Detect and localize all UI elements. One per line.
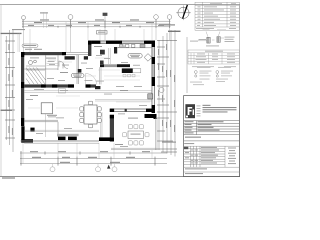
hall smudges bbox=[47, 61, 87, 81]
grid flag marker bbox=[103, 13, 108, 40]
window label box top bbox=[97, 31, 108, 34]
plan title label bbox=[168, 31, 181, 32]
terrace inner lines bbox=[24, 114, 99, 137]
partition jamb block bbox=[78, 69, 82, 73]
left dimension ticks bbox=[5, 41, 15, 138]
top dimension ticks bbox=[23, 20, 170, 28]
bottom dim text smudges bbox=[30, 151, 150, 163]
mid-right table text bbox=[196, 51, 236, 63]
bottom grid bubbles bbox=[50, 167, 117, 172]
legend right text bbox=[216, 67, 233, 82]
title rows text upper bbox=[185, 121, 224, 138]
window top middle bbox=[66, 53, 88, 55]
kitchen counter bottom bbox=[100, 64, 130, 67]
dining chairs bbox=[80, 101, 101, 128]
terrace pillar base bar bbox=[99, 137, 111, 141]
terrace table bbox=[128, 131, 144, 139]
wall right W4 bbox=[152, 41, 155, 113]
hall lines bbox=[47, 60, 59, 66]
left dim text smudges bbox=[8, 44, 13, 135]
bay south wall blocks bbox=[58, 137, 77, 141]
grid bubble C bbox=[154, 15, 159, 20]
beam lines living bbox=[24, 91, 151, 93]
legend group right bbox=[216, 71, 219, 78]
terrace south edge bbox=[21, 140, 100, 143]
door arcs bbox=[59, 61, 68, 69]
corner block SE bbox=[145, 114, 157, 119]
sink circles bbox=[120, 45, 125, 47]
sheet left border bbox=[0, 5, 2, 177]
stair room partition bbox=[24, 55, 58, 84]
kitchen island edge bbox=[109, 48, 111, 64]
left edge vertical label bbox=[1, 110, 13, 111]
bottom dimension ticks bbox=[21, 151, 155, 166]
grid bubble B bbox=[68, 15, 73, 20]
extension lines above plan bbox=[30, 12, 152, 52]
closet block 2 bbox=[84, 56, 88, 59]
interior wall horizontal W7 bbox=[24, 84, 96, 87]
pantry partition bbox=[100, 67, 101, 84]
kitchen label stadium bbox=[128, 53, 142, 58]
bottom extension lines bbox=[23, 143, 152, 164]
title block frame bbox=[184, 96, 240, 177]
wall step vertical W2 bbox=[88, 41, 91, 56]
top-right table text bbox=[196, 3, 236, 29]
interior extra smudges bbox=[26, 55, 147, 147]
sheet right border bbox=[238, 5, 240, 177]
kitchen island block B bbox=[100, 61, 104, 65]
bottom dimension chains bbox=[20, 153, 167, 164]
door jamb on W5 bbox=[125, 109, 127, 112]
counter end block bbox=[95, 86, 100, 89]
hob fixture bbox=[148, 94, 153, 99]
sheet bottom border bbox=[0, 176, 240, 178]
kitchen wall stub bbox=[114, 47, 117, 54]
wall top-right W3 bbox=[91, 41, 155, 44]
kitchen-dining edge lines bbox=[95, 99, 152, 101]
grid bubble A bbox=[22, 16, 26, 20]
wall left W6 bbox=[21, 52, 24, 126]
grid stems bbox=[24, 19, 170, 52]
porch L wall bbox=[21, 126, 34, 142]
section arrow mark bbox=[107, 165, 110, 169]
level label stadium bbox=[22, 44, 38, 47]
panel divider line bbox=[186, 37, 188, 93]
kitchen island bar bbox=[122, 68, 141, 77]
mid-right table bbox=[188, 50, 239, 64]
bottom bubble stems bbox=[53, 164, 115, 167]
title block row lines upper bbox=[184, 121, 240, 141]
axis bubble right bbox=[159, 88, 164, 93]
scale text bbox=[162, 142, 176, 143]
wall detail text smudges bbox=[190, 30, 235, 47]
bottom-left footer text bbox=[2, 177, 15, 178]
title block lower rows bbox=[184, 146, 240, 172]
sink diamond bbox=[144, 54, 152, 62]
wall detail diagram bbox=[198, 32, 224, 44]
terrace right edge bbox=[111, 118, 157, 150]
terrace chairs bbox=[123, 125, 150, 145]
top-right table bbox=[195, 2, 239, 30]
bay sill band bbox=[57, 134, 79, 136]
note line under table bbox=[192, 65, 236, 68]
legend group left bbox=[194, 71, 197, 78]
logo square bbox=[185, 104, 195, 118]
terrace left edge lines bbox=[101, 112, 102, 137]
legend left text bbox=[190, 67, 212, 85]
interior partition vertical bbox=[77, 55, 79, 84]
wall top-left W1 bbox=[21, 52, 66, 55]
kitchen door arc bbox=[86, 74, 97, 85]
right dim text smudges bbox=[158, 44, 175, 132]
exterior face lines bbox=[18, 33, 19, 52]
dining table bbox=[84, 105, 97, 124]
kitchen island block A bbox=[100, 50, 105, 55]
stairs bbox=[26, 66, 46, 84]
title lower rows text bbox=[184, 143, 236, 174]
interior extra annotation lines bbox=[28, 58, 150, 108]
living room label stadium bbox=[71, 73, 84, 77]
right dimension chains bbox=[159, 30, 175, 157]
right dimension ticks bbox=[157, 41, 177, 152]
grid bubble D bbox=[167, 15, 172, 20]
top dimension chain lines bbox=[22, 21, 171, 27]
terrace pillar wall bbox=[110, 115, 114, 142]
sheet top border bbox=[0, 4, 240, 6]
dim text right top bbox=[159, 24, 175, 25]
wc fixtures bbox=[29, 60, 37, 64]
left dimension chains bbox=[6, 30, 13, 152]
title text lines bbox=[203, 105, 237, 113]
wall bottom-right W5 bbox=[110, 109, 155, 112]
fireplace square bbox=[41, 103, 57, 118]
logo side labels bbox=[197, 106, 201, 117]
plan annotation smudges bbox=[25, 46, 138, 145]
kitchen counter top bbox=[117, 44, 152, 47]
level text top-left bbox=[1, 29, 26, 34]
south glazing bbox=[24, 120, 58, 137]
sideboard bbox=[59, 89, 66, 93]
north arrow circle bbox=[176, 5, 191, 21]
top dimension text smudges bbox=[28, 12, 164, 26]
closet block 1 bbox=[65, 56, 75, 59]
